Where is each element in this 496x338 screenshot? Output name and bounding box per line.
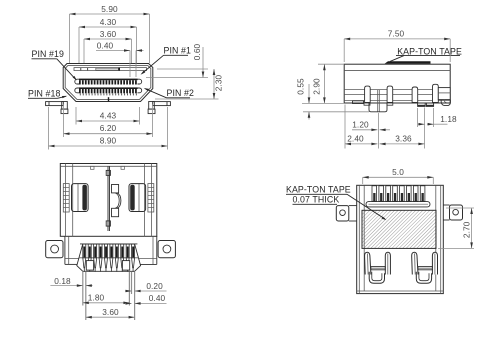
side view inner top line [344, 70, 450, 72]
extension lines 4.43 [75, 107, 77, 125]
side view center through leg [369, 103, 387, 112]
leader PIN #2 [146, 89, 167, 98]
front view right leg [149, 102, 155, 110]
front view left mount ear [46, 102, 64, 106]
rear tape roll capsule [366, 202, 430, 207]
center bottom hook [106, 221, 110, 226]
pin row 2 (lower contacts) [79, 87, 138, 89]
svg-text:0.60: 0.60 [192, 43, 202, 60]
leader kapton tape rear [347, 194, 385, 219]
dimension 2.70 [471, 208, 473, 248]
svg-text:3.60: 3.60 [102, 307, 119, 317]
extension lines 4.30 [78, 27, 80, 63]
rear view inner lines [358, 185, 360, 293]
dimension 2.30 [213, 69, 215, 99]
dimension 5.90 [70, 13, 150, 15]
svg-text:2.40: 2.40 [347, 134, 364, 144]
dimension 0.55 [308, 84, 310, 103]
svg-text:3.36: 3.36 [395, 134, 412, 144]
right mount ear (rear view) [450, 205, 463, 220]
tongue left cap row2 [75, 88, 79, 93]
VIEW 2: connector side view [296, 29, 462, 149]
leader kapton tape side [390, 56, 404, 62]
extension lines 8.90 [48, 107, 50, 150]
dimension 4.43 [76, 120, 140, 122]
side view right feet [418, 103, 426, 106]
dimension 0.40 [129, 51, 131, 78]
extension lines 3.60 [83, 39, 85, 63]
center top hook [106, 170, 110, 175]
dimension 1.18 [418, 123, 425, 125]
center rail [107, 166, 109, 231]
rear view body outline [357, 185, 444, 293]
dimension 4.30 [79, 26, 137, 28]
dimension 3.60 [86, 316, 135, 318]
right latch spring [129, 184, 146, 212]
pin row 2 lower ticks [80, 93, 81, 95]
dimension 0.20 [125, 290, 132, 292]
svg-text:KAP-TON TAPE: KAP-TON TAPE [286, 184, 351, 194]
shell top lip [74, 68, 147, 71]
dimension 2.40 [345, 143, 377, 145]
extension lines bottom side view [378, 113, 380, 149]
side view post 2 [387, 86, 393, 102]
extension lines right side 0.60 / 2.30 [157, 68, 208, 70]
tongue right cap row1 [138, 79, 142, 84]
dimension 0.60 [202, 47, 204, 78]
wide feet [86, 261, 93, 271]
svg-text:1.20: 1.20 [352, 119, 369, 129]
VIEW 3: connector top view [46, 164, 176, 321]
dimension 2.90 [323, 64, 325, 103]
svg-text:KAP-TON TAPE: KAP-TON TAPE [397, 46, 462, 56]
side view post 4 [433, 84, 439, 102]
dimension 1.80 [83, 302, 130, 304]
svg-text:PIN #18: PIN #18 [28, 89, 61, 99]
svg-text:0.40: 0.40 [97, 40, 114, 50]
svg-text:6.20: 6.20 [100, 123, 117, 133]
extension lines 5.0 [362, 177, 364, 184]
leader PIN #1 [142, 55, 164, 73]
lip tick [118, 68, 120, 71]
extension lines 6.20 [63, 104, 65, 137]
svg-text:8.90: 8.90 [100, 136, 117, 146]
extension lines left side view [318, 63, 344, 65]
leader PIN #19 [57, 59, 76, 79]
dimension 0.40 [135, 302, 167, 304]
bottom center key tick [108, 97, 109, 101]
right mount ear (top view) [158, 241, 175, 258]
side view right end block [438, 88, 450, 100]
svg-text:1.18: 1.18 [440, 114, 457, 124]
svg-text:0.07 THICK: 0.07 THICK [293, 194, 340, 204]
svg-text:PIN #19: PIN #19 [32, 49, 65, 59]
dimension 5.0 [363, 176, 434, 178]
svg-text:7.50: 7.50 [388, 29, 405, 39]
extension lines 2.70 [446, 207, 474, 209]
VIEW 1: connector front view [28, 4, 224, 150]
tongue right cap row2 [138, 88, 142, 93]
side view post 1 [365, 86, 371, 102]
right rear latch [412, 252, 418, 274]
dimension 7.50 [344, 38, 450, 40]
svg-text:4.43: 4.43 [100, 111, 117, 121]
front view shell outer outline [63, 64, 153, 102]
svg-text:2.70: 2.70 [461, 221, 471, 238]
rear top contact bars [372, 186, 377, 202]
pin row 1 (upper contacts) [79, 79, 138, 81]
svg-text:1.80: 1.80 [88, 292, 105, 302]
left rear latch [365, 252, 371, 274]
dimension 0.18 [50, 285, 82, 287]
dimension 1.20 [352, 129, 377, 131]
svg-text:0.20: 0.20 [146, 281, 163, 291]
dimension 8.90 [49, 145, 168, 147]
pin comb housing [77, 244, 141, 271]
svg-text:0.40: 0.40 [149, 293, 166, 303]
svg-text:5.0: 5.0 [392, 167, 404, 177]
svg-text:2.30: 2.30 [214, 74, 224, 91]
left mount ear (rear view) [336, 206, 349, 221]
side view post 3 [412, 87, 418, 103]
dimension 3.36 [380, 143, 425, 145]
dimension 6.20 [64, 133, 153, 135]
side view post feet below body [364, 103, 370, 105]
tongue left cap row1 [75, 79, 79, 84]
right side ladder slots [148, 184, 154, 212]
top edge tabs [91, 166, 95, 169]
side view left SMT foot [353, 101, 364, 104]
svg-text:0.55: 0.55 [296, 78, 306, 95]
side view inner rails [344, 89, 446, 91]
lip small ticks [80, 68, 81, 71]
extension lines 7.50 [343, 39, 345, 62]
top view lower shell [64, 236, 66, 264]
extension lines bottom view dims [82, 272, 84, 306]
svg-text:0.18: 0.18 [54, 276, 71, 286]
svg-text:5.90: 5.90 [101, 4, 118, 14]
kapton tape hatched area [362, 210, 436, 248]
side view through pin upper [377, 90, 379, 112]
svg-text:PIN #2: PIN #2 [167, 88, 195, 98]
left mount ear (top view) [46, 241, 63, 258]
front view right mount ear [153, 102, 171, 106]
front view left leg [62, 102, 68, 110]
leader PIN #18 [58, 96, 66, 98]
svg-text:4.30: 4.30 [100, 17, 117, 27]
left side ladder slots [63, 184, 69, 212]
left latch spring [72, 184, 89, 212]
top view body outline [60, 164, 157, 237]
extension lines 5.90 [69, 14, 71, 63]
kapton tape strip (side) [385, 61, 431, 64]
top view inner lines [65, 164, 67, 237]
solder pins [83, 244, 86, 258]
side view right end hook [441, 100, 450, 106]
svg-text:3.60: 3.60 [100, 29, 117, 39]
svg-text:PIN #1: PIN #1 [164, 46, 192, 56]
side view body outline [344, 64, 450, 103]
VIEW 4: connector rear view [286, 167, 474, 294]
svg-text:2.90: 2.90 [311, 78, 321, 95]
center spring curve [112, 185, 119, 193]
front view shell inner outline [65, 66, 151, 100]
lip recess [96, 68, 119, 70]
dimension 3.60 [84, 38, 132, 40]
